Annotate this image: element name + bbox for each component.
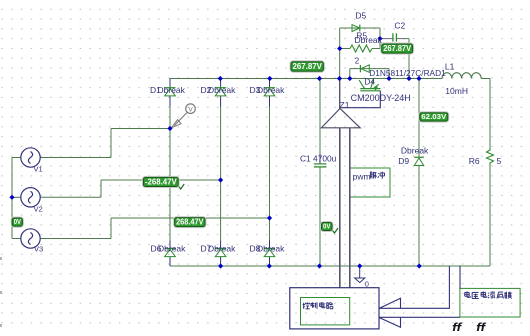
svg-text:V3: V3 [34, 245, 43, 254]
svg-text:CM200DY-24H: CM200DY-24H [351, 93, 411, 103]
svg-text:Dbreak: Dbreak [208, 85, 236, 95]
svg-text:Dbreak: Dbreak [158, 85, 186, 95]
svg-text:Dbreak: Dbreak [401, 145, 429, 155]
svg-text:0V: 0V [323, 224, 331, 231]
svg-text:V2: V2 [34, 205, 43, 214]
svg-text:Dbreak: Dbreak [257, 85, 285, 95]
svg-text:267.87V: 267.87V [293, 62, 323, 71]
svg-text:Dbreak: Dbreak [208, 244, 236, 254]
svg-text:0V: 0V [14, 217, 21, 226]
svg-text:R6: R6 [469, 156, 480, 166]
svg-text:V1: V1 [34, 165, 43, 174]
svg-text:Dbreak: Dbreak [257, 244, 285, 254]
svg-text:-268.47V: -268.47V [145, 178, 177, 187]
svg-text:C2: C2 [394, 21, 405, 31]
svg-text:10mH: 10mH [445, 86, 468, 96]
svg-text:D4: D4 [364, 77, 375, 87]
svg-text:pwm: pwm [353, 171, 371, 181]
svg-text:0: 0 [365, 280, 369, 289]
svg-text:Dbreak: Dbreak [158, 244, 186, 254]
svg-text:D9: D9 [398, 156, 409, 166]
svg-text:D1N5811/27C/RAD1: D1N5811/27C/RAD1 [369, 68, 446, 78]
svg-text:62.03V: 62.03V [421, 112, 447, 121]
svg-text:2: 2 [355, 57, 360, 66]
svg-text:V: V [188, 106, 193, 113]
svg-text:268.47V: 268.47V [176, 218, 204, 227]
svg-text:L1: L1 [445, 62, 455, 72]
svg-text:D5: D5 [355, 11, 366, 21]
svg-text:ff: ff [452, 320, 462, 332]
svg-text:ff: ff [476, 320, 486, 332]
svg-text:5: 5 [497, 156, 502, 166]
svg-text:Z1: Z1 [340, 100, 350, 110]
svg-text:Dbreak: Dbreak [355, 35, 383, 45]
svg-text:C1 4700u: C1 4700u [300, 153, 337, 163]
svg-text:267.87V: 267.87V [383, 44, 412, 53]
